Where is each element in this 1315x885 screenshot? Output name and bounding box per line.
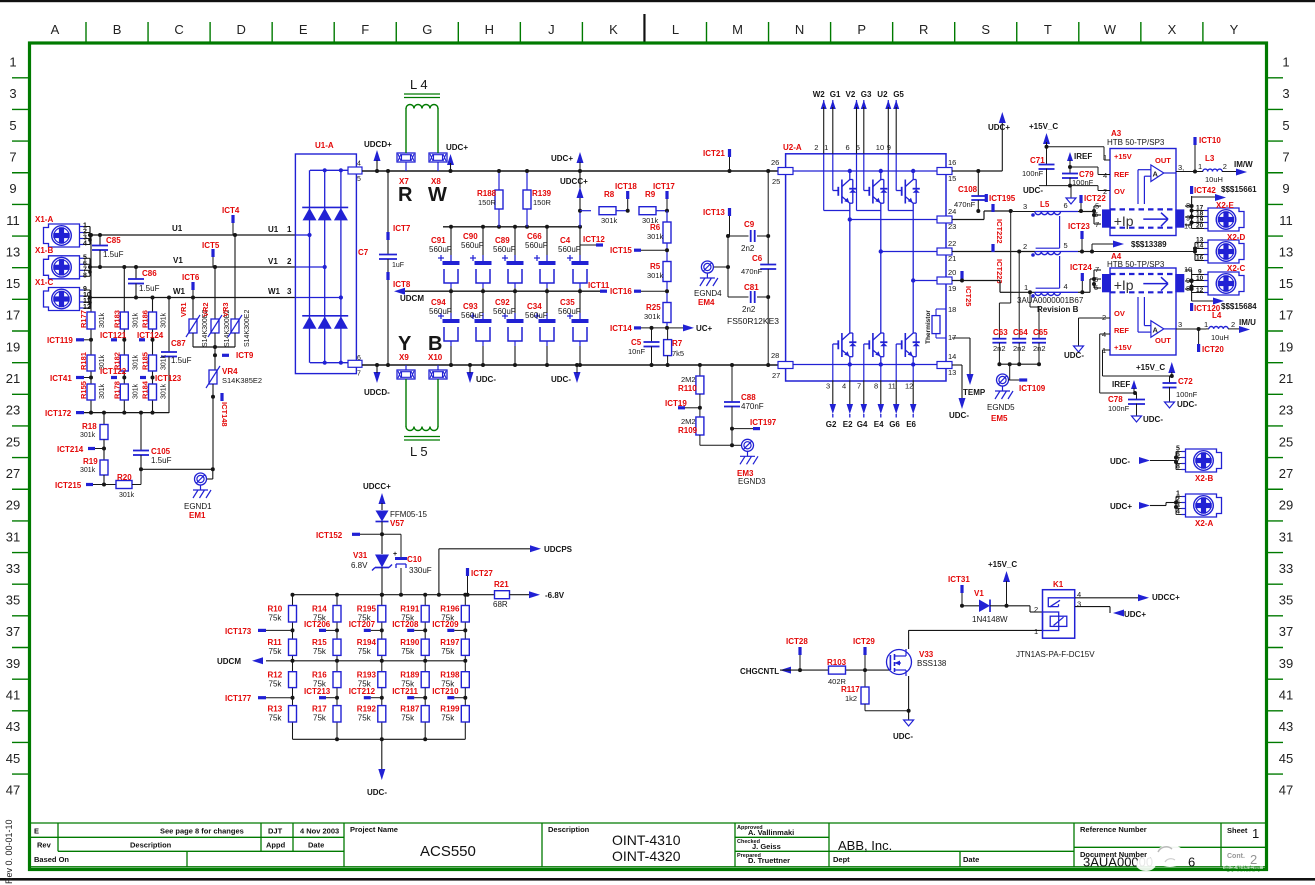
svg-text:R20: R20 [117, 473, 132, 482]
svg-text:R198: R198 [440, 671, 460, 680]
svg-text:ICT222: ICT222 [995, 219, 1004, 244]
svg-text:L4: L4 [1212, 311, 1222, 320]
transformer winding 1 L5 [1013, 200, 1078, 248]
module bottom pin wire G4 [857, 344, 868, 429]
svg-text:10: 10 [876, 143, 884, 152]
svg-text:12: 12 [1196, 287, 1204, 294]
svg-text:M: M [732, 22, 743, 37]
test point ICT8 [386, 272, 410, 289]
relay K1 [1016, 580, 1095, 659]
resistor R189 [400, 671, 429, 689]
wire VR4 to EM1 [212, 397, 214, 470]
svg-text:D: D [236, 22, 245, 37]
wire EM1 ground bus [141, 468, 213, 470]
svg-text:ICT215: ICT215 [55, 481, 82, 490]
svg-text:UDCC+: UDCC+ [363, 482, 391, 491]
resistor R187 [400, 705, 429, 723]
svg-text:VR2: VR2 [201, 302, 210, 317]
svg-text:C63: C63 [993, 328, 1008, 337]
svg-text:REF: REF [1114, 170, 1129, 179]
svg-text:ICT214: ICT214 [57, 445, 84, 454]
title block lines [30, 822, 1267, 824]
svg-text:3: 3 [287, 287, 292, 296]
svg-text:ICT206: ICT206 [304, 620, 331, 629]
test point ICT5 [202, 241, 220, 267]
svg-text:S14K385E2: S14K385E2 [222, 376, 262, 385]
IGBT V4 bottom [872, 333, 874, 357]
resistor R117 [841, 670, 909, 711]
svg-text:V1: V1 [173, 256, 183, 265]
svg-text:3: 3 [1178, 320, 1182, 329]
svg-text:1k2: 1k2 [845, 694, 857, 703]
svg-text:EGND1: EGND1 [184, 502, 212, 511]
svg-text:75k: 75k [358, 647, 372, 656]
svg-text:B: B [113, 22, 122, 37]
module top pin wire W2 [813, 90, 850, 211]
capacitor C93 [461, 291, 492, 367]
test point ICT12 [580, 235, 605, 247]
svg-text:UDCM: UDCM [400, 294, 424, 303]
resistor R11 [268, 638, 297, 656]
svg-text:C94: C94 [431, 298, 446, 307]
test point ICT212 [349, 687, 384, 700]
svg-text:OV: OV [1114, 309, 1125, 318]
svg-text:ICT29: ICT29 [853, 637, 875, 646]
resistor R192 [357, 705, 386, 723]
test point ICT4 [222, 206, 240, 235]
svg-text:ICT213: ICT213 [304, 687, 331, 696]
svg-text:470nF: 470nF [741, 402, 764, 411]
module internal top bus [793, 170, 937, 172]
test point ICT17 [653, 182, 675, 213]
svg-text:B: B [428, 333, 442, 355]
svg-text:Reference Number: Reference Number [1080, 825, 1147, 834]
svg-text:HTB 50-TP/SP3: HTB 50-TP/SP3 [1107, 138, 1165, 147]
svg-text:Y: Y [398, 333, 412, 355]
svg-text:ICT148: ICT148 [220, 402, 229, 427]
test point ICT109 [1010, 378, 1046, 393]
svg-text:G4: G4 [857, 420, 868, 429]
svg-text:ICT5: ICT5 [202, 241, 220, 250]
diode V1 [962, 589, 1043, 624]
inductor L4 input choke [404, 77, 440, 153]
transformer winding 2 [1023, 241, 1078, 288]
capacitor C81 [728, 236, 770, 314]
svg-text:ICT31: ICT31 [948, 575, 970, 584]
svg-text:ICT211: ICT211 [392, 687, 418, 696]
svg-text:C65: C65 [1033, 328, 1048, 337]
inductor L5 input choke [404, 379, 440, 459]
svg-text:10uH: 10uH [1205, 175, 1223, 184]
svg-text:OINT-4310: OINT-4310 [612, 832, 681, 848]
svg-text:301k: 301k [132, 354, 139, 370]
svg-text:ICT9: ICT9 [236, 351, 254, 360]
net label CHGCNTL [740, 667, 890, 676]
resistor R9 [639, 190, 667, 225]
svg-text:560uF: 560uF [461, 241, 484, 250]
svg-text:R193: R193 [357, 671, 377, 680]
capacitor C94 [429, 291, 460, 367]
svg-text:UDCPS: UDCPS [544, 545, 573, 554]
resistor R12 [268, 671, 297, 689]
svg-text:Rev: Rev [37, 841, 52, 850]
svg-text:R190: R190 [400, 638, 420, 647]
test point ICT7 [386, 224, 410, 240]
varistor VR4 [206, 355, 262, 388]
svg-text:470nF: 470nF [741, 267, 763, 276]
capacitor C34 [525, 291, 556, 367]
svg-text:ICT23: ICT23 [1068, 222, 1090, 231]
svg-text:IM/U: IM/U [1239, 318, 1256, 327]
connector X2-B [1174, 446, 1222, 484]
svg-text:+15V: +15V [1114, 152, 1132, 161]
capacitor C86 [128, 265, 160, 300]
resistor R8 [578, 190, 628, 225]
svg-text:ICT28: ICT28 [786, 637, 808, 646]
svg-text:FS50R12KE3: FS50R12KE3 [727, 316, 779, 326]
svg-text:N: N [795, 22, 804, 37]
svg-text:L: L [672, 22, 679, 37]
capacitor C85 [92, 233, 124, 269]
net label UDC- X2-B [1110, 457, 1176, 466]
capacitor C7 [358, 169, 404, 367]
svg-text:R8: R8 [604, 190, 615, 199]
svg-text:560uF: 560uF [558, 307, 581, 316]
svg-text:43: 43 [6, 719, 20, 734]
svg-text:10: 10 [1196, 275, 1204, 282]
svg-text:UDC+: UDC+ [988, 123, 1010, 132]
net label UDC+ left [446, 143, 468, 173]
sensor A3 pins right [1184, 196, 1194, 231]
test point ICT20 [1197, 329, 1224, 354]
svg-text:R186: R186 [141, 310, 150, 328]
svg-text:R181: R181 [79, 352, 88, 370]
svg-text:X2-D: X2-D [1227, 233, 1245, 242]
svg-text:ICT6: ICT6 [182, 273, 200, 282]
grid column ticks [85, 22, 87, 42]
svg-text:75k: 75k [269, 647, 283, 656]
svg-text:C89: C89 [495, 236, 510, 245]
svg-text:G: G [422, 22, 432, 37]
svg-text:C35: C35 [560, 298, 575, 307]
svg-text:UDC-: UDC- [949, 411, 969, 420]
wire phase V to sensor [952, 251, 1035, 253]
svg-text:4 Nov 2003: 4 Nov 2003 [300, 827, 339, 836]
test point ICT22 [1079, 194, 1106, 213]
svg-text:41: 41 [6, 688, 20, 703]
svg-text:35: 35 [6, 593, 20, 608]
svg-text:17: 17 [6, 308, 20, 323]
resistor R190 [400, 638, 429, 656]
svg-text:14: 14 [948, 352, 956, 361]
svg-text:ICT123: ICT123 [155, 374, 182, 383]
svg-text:R177: R177 [79, 310, 88, 328]
test point ICT197 [730, 418, 777, 431]
svg-text:ICT20: ICT20 [1202, 345, 1224, 354]
module pin 24 23 [937, 207, 956, 231]
resistor R155 [79, 381, 106, 400]
svg-text:150R: 150R [533, 198, 552, 207]
svg-text:ICT197: ICT197 [750, 418, 777, 427]
svg-text:HTB 50-TP/SP3: HTB 50-TP/SP3 [1107, 260, 1165, 269]
sensor A4 pins left [1092, 265, 1106, 355]
varistor VR1 [179, 296, 209, 348]
test point ICT27 [466, 568, 494, 597]
test point ICT13 [703, 208, 731, 236]
svg-text:R187: R187 [400, 705, 420, 714]
module bottom pin wire E6 [905, 365, 917, 430]
svg-text:R: R [398, 184, 413, 206]
svg-text:100nF: 100nF [1176, 390, 1198, 399]
svg-text:ACS550: ACS550 [420, 843, 476, 860]
svg-text:ICT8: ICT8 [393, 280, 411, 289]
svg-text:11: 11 [6, 213, 20, 228]
wire sensor A4 +15V and net +15V_C [1103, 350, 1176, 378]
svg-text:37: 37 [1279, 624, 1293, 639]
test point ICT210 [432, 687, 467, 700]
svg-text:ICT109: ICT109 [1019, 384, 1046, 393]
svg-text:12: 12 [905, 382, 913, 391]
svg-text:A. Vallinmaki: A. Vallinmaki [748, 828, 794, 837]
inductor L3 [1198, 154, 1238, 184]
svg-text:6: 6 [357, 355, 361, 362]
divider grid top bus wire [293, 594, 496, 596]
svg-text:9: 9 [887, 143, 891, 152]
module bottom pin wire G6 [888, 344, 900, 429]
capacitor C10 [382, 534, 432, 594]
svg-text:2M2: 2M2 [681, 375, 696, 384]
wire sensor A4 OV to UDC- [1064, 318, 1110, 360]
svg-text:20: 20 [1196, 223, 1204, 230]
svg-text:31: 31 [6, 529, 20, 544]
svg-text:43: 43 [1279, 719, 1293, 734]
svg-text:A: A [1153, 170, 1159, 179]
svg-text:68R: 68R [493, 600, 508, 609]
svg-text:OV: OV [1114, 187, 1125, 196]
svg-text:470nF: 470nF [954, 200, 976, 209]
divider column 5 wires [464, 595, 466, 740]
svg-text:G1: G1 [830, 90, 841, 99]
svg-text:$$$15661: $$$15661 [1221, 185, 1257, 194]
test point ICT206 [304, 620, 339, 632]
svg-text:7: 7 [1282, 149, 1289, 164]
resistor R17 [312, 705, 341, 723]
svg-text:39: 39 [1279, 656, 1293, 671]
net $$$13389 [1092, 240, 1167, 252]
svg-text:C: C [174, 22, 183, 37]
svg-text:560uF: 560uF [525, 241, 548, 250]
svg-text:3: 3 [9, 86, 16, 101]
resistor R181 [79, 352, 106, 371]
svg-text:+: + [393, 551, 397, 558]
svg-text:R185: R185 [141, 352, 150, 370]
svg-text:ICT11: ICT11 [588, 281, 610, 290]
IGBT module U2-A body [783, 143, 946, 381]
wire V33 drain to relay [909, 630, 1043, 649]
svg-text:EM1: EM1 [189, 511, 206, 520]
svg-text:DJT: DJT [268, 827, 283, 836]
net label IREF sensor A4 [1112, 380, 1137, 395]
net label UDC- mid [551, 363, 581, 384]
grid row ticks [12, 77, 30, 79]
net label UDC+ mid [551, 152, 584, 171]
svg-text:75k: 75k [401, 647, 415, 656]
svg-text:1: 1 [824, 143, 828, 152]
svg-text:2M2: 2M2 [681, 417, 696, 426]
module top pin wire G3 [856, 90, 872, 191]
svg-text:ICT14: ICT14 [610, 324, 632, 333]
MOSFET V33 BSS138 [887, 649, 947, 676]
svg-text:OUT: OUT [1155, 336, 1171, 345]
resistor R18 [80, 413, 108, 440]
svg-text:X2-C: X2-C [1227, 264, 1245, 273]
connector X2-D [1092, 233, 1245, 263]
svg-text:301k: 301k [132, 383, 139, 399]
svg-text:15: 15 [948, 174, 956, 183]
fuse X10 [428, 353, 447, 379]
module pin 22 21 [937, 239, 956, 263]
test point ICT25 [960, 271, 973, 306]
svg-text:L 4: L 4 [410, 77, 428, 92]
svg-text:23: 23 [948, 222, 956, 231]
svg-text:X1-A: X1-A [35, 215, 53, 224]
svg-text:R189: R189 [400, 671, 420, 680]
IGBT V2 bottom [841, 333, 843, 357]
module phase wire W [849, 171, 851, 180]
svg-text:100nF: 100nF [1108, 404, 1130, 413]
resistor R194 [357, 638, 386, 656]
wire V33 source to ground [893, 676, 914, 741]
svg-text:H: H [485, 22, 494, 37]
svg-text:2n2: 2n2 [1013, 344, 1026, 353]
svg-text:C105: C105 [151, 447, 171, 456]
svg-text:C86: C86 [142, 269, 157, 278]
svg-text:13: 13 [1279, 244, 1293, 259]
svg-text:R19: R19 [83, 457, 98, 466]
net label UDCPS [437, 545, 573, 597]
svg-text:2: 2 [1231, 320, 1235, 329]
svg-text:Project Name: Project Name [350, 825, 398, 834]
net label UC+ [667, 324, 713, 333]
svg-text:UDC-: UDC- [1064, 351, 1084, 360]
svg-text:G5: G5 [893, 90, 904, 99]
svg-text:C6: C6 [752, 254, 763, 263]
svg-text:R195: R195 [357, 605, 377, 614]
svg-text:2: 2 [1223, 162, 1227, 171]
svg-text:R7: R7 [672, 339, 683, 348]
svg-text:C7: C7 [358, 248, 369, 257]
svg-text:V33: V33 [919, 650, 934, 659]
resistor R191 [400, 605, 429, 623]
bridge output pin 6 7 [348, 355, 362, 378]
test point ICT173 [225, 627, 295, 636]
svg-text:R18: R18 [82, 422, 97, 431]
svg-text:7k5: 7k5 [672, 349, 684, 358]
svg-text:U1: U1 [172, 224, 183, 233]
test point ICT152 [316, 531, 384, 540]
svg-text:R183: R183 [112, 310, 121, 328]
svg-text:75k: 75k [401, 714, 415, 723]
svg-text:5: 5 [9, 118, 16, 133]
svg-text:A: A [1153, 326, 1159, 335]
svg-text:X1-C: X1-C [35, 278, 53, 287]
capacitor C6 [741, 169, 776, 367]
divider grid bottom bus wire [293, 738, 466, 740]
sensor A3 op-amp [1138, 165, 1176, 204]
svg-text:301k: 301k [647, 232, 664, 241]
test point ICT19 [665, 399, 702, 410]
test point ICT195 [985, 194, 1016, 203]
resistor R16 [312, 671, 341, 689]
svg-text:Appd: Appd [266, 841, 286, 850]
capacitor C4 [558, 227, 589, 291]
svg-text:ICT177: ICT177 [225, 694, 252, 703]
svg-text:2: 2 [1034, 605, 1038, 614]
IGBT V5 top [904, 180, 906, 204]
test point ICT223 [991, 244, 1004, 284]
svg-text:25: 25 [772, 177, 780, 186]
svg-text:41: 41 [1279, 688, 1293, 703]
svg-text:301k: 301k [601, 216, 618, 225]
svg-text:29: 29 [1279, 498, 1293, 513]
svg-text:R16: R16 [312, 671, 327, 680]
sensor A4 pins right [1184, 265, 1194, 301]
test point ICT21 [703, 149, 732, 173]
test point ICT209 [432, 620, 467, 632]
svg-text:2: 2 [1023, 242, 1027, 251]
svg-text:UDC-: UDC- [1023, 186, 1043, 195]
resistor R178 [112, 381, 139, 400]
svg-text:560uF: 560uF [429, 245, 452, 254]
svg-text:UDC-: UDC- [1110, 457, 1130, 466]
divider column 2 wires [336, 595, 338, 740]
svg-text:39: 39 [6, 656, 20, 671]
svg-text:BSS138: BSS138 [917, 659, 947, 668]
svg-text:L3: L3 [1205, 154, 1215, 163]
svg-text:1: 1 [287, 225, 292, 234]
resistor R5 [647, 262, 671, 303]
resistor R6 [647, 211, 671, 262]
svg-text:+Ip: +Ip [1114, 277, 1134, 293]
svg-text:X: X [1168, 22, 1177, 37]
svg-text:C64: C64 [1013, 328, 1028, 337]
test point ICT23 [1068, 222, 1090, 254]
svg-text:1: 1 [1024, 283, 1028, 292]
svg-text:UDCM: UDCM [217, 657, 241, 666]
svg-text:1.5uF: 1.5uF [171, 356, 192, 365]
svg-text:G6: G6 [889, 420, 900, 429]
svg-text:19: 19 [6, 339, 20, 354]
svg-text:ICT122: ICT122 [100, 367, 127, 376]
svg-text:23: 23 [6, 403, 20, 418]
module thermistor [925, 305, 956, 344]
test point ICT208 [392, 620, 427, 632]
svg-text:R188: R188 [477, 189, 497, 198]
svg-text:11: 11 [888, 382, 896, 391]
svg-text:C78: C78 [1108, 395, 1123, 404]
svg-text:R17: R17 [312, 705, 327, 714]
svg-text:E4: E4 [874, 420, 884, 429]
svg-text:1.5uF: 1.5uF [139, 284, 160, 293]
svg-text:ICT41: ICT41 [50, 374, 72, 383]
svg-text:UDC-: UDC- [367, 788, 387, 797]
capacitor C78 [1108, 393, 1163, 424]
resistor R10 [268, 605, 297, 623]
svg-text:301k: 301k [644, 312, 661, 321]
net label UDC- divider [367, 739, 387, 797]
resistor R15 [312, 638, 341, 656]
resistor ladder column wires [90, 235, 92, 413]
